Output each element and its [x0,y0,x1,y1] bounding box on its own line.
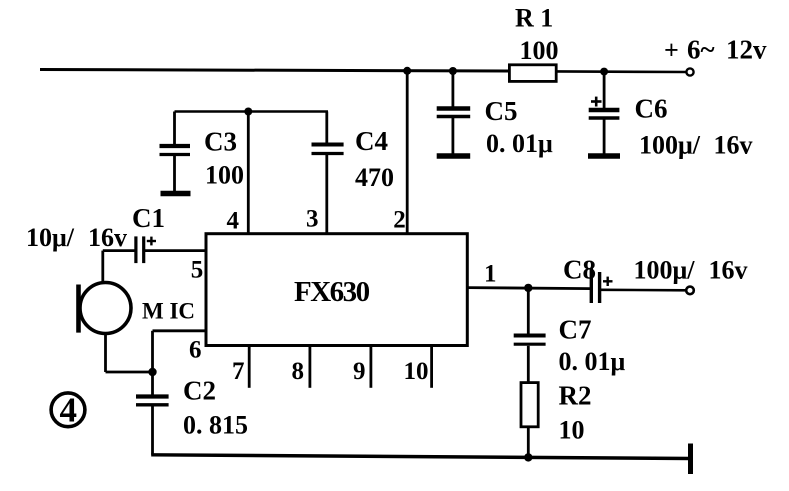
wire IC bottom pin stubs [249,346,431,388]
svg-text:100: 100 [205,160,244,189]
svg-text:+: + [664,36,679,65]
svg-text:16v: 16v [714,131,753,160]
label +6~12v [664,35,767,65]
svg-text:4: 4 [60,391,78,430]
capacitor C5 [437,71,471,154]
svg-text:R2: R2 [559,381,592,411]
svg-text:2: 2 [393,207,406,234]
svg-text:16v: 16v [88,223,127,252]
terminal output [686,287,694,295]
svg-text:C4: C4 [355,126,388,156]
label C1 value 10u/16v [26,223,127,252]
IC U1 FX630 [206,234,467,346]
svg-text:FX630: FX630 [294,276,370,308]
wire MIC bottom to junction [106,334,153,373]
svg-text:C7: C7 [559,314,592,344]
node bottom rail / R2 [524,453,532,461]
label figure number 4 [51,391,85,430]
svg-text:10: 10 [559,416,585,445]
node rail / pin4 [244,108,252,116]
svg-text:C3: C3 [204,127,237,157]
svg-text:R 1: R 1 [515,4,553,33]
microphone MIC [79,283,132,334]
svg-text:6: 6 [189,337,202,364]
svg-text:0. 01μ: 0. 01μ [486,129,553,158]
label C6 value 100u/16v [639,131,753,160]
wire bottom ground rail [151,455,690,459]
svg-text:C2: C2 [183,375,216,405]
svg-text:9: 9 [353,358,366,385]
capacitor C2 [136,372,169,455]
capacitor C1 [136,236,156,263]
label C8 value 100u/16v [634,256,748,285]
wire pin4 vertical [247,112,250,234]
svg-text:0. 815: 0. 815 [183,411,248,440]
wire C1 to MIC vertical [101,251,104,284]
ground C6 bar [588,153,620,158]
svg-text:470: 470 [355,163,394,192]
svg-text:100μ/: 100μ/ [634,256,696,285]
svg-text:C6: C6 [635,93,668,123]
wire pin5 / C1 horizontal [103,249,206,252]
terminal +V supply [686,68,693,75]
resistor R1 [509,65,556,82]
node top rail / C6 [600,68,608,76]
svg-text:C5: C5 [485,96,518,126]
capacitor C6 [589,72,620,154]
wire pin1 output [467,288,687,291]
svg-text:4: 4 [227,207,240,234]
capacitor C8 [591,268,612,303]
svg-text:1: 1 [484,260,497,287]
wire top supply rail [40,70,687,73]
svg-text:0. 01μ: 0. 01μ [559,347,626,376]
svg-text:5: 5 [191,256,204,283]
svg-text:3: 3 [306,206,319,233]
capacitor C3 [160,112,191,192]
svg-text:6~: 6~ [687,35,715,65]
svg-text:10: 10 [404,358,429,385]
svg-text:C1: C1 [132,203,165,233]
resistor R2 [521,383,538,458]
svg-text:12v: 12v [726,35,767,65]
svg-text:10μ/: 10μ/ [26,223,75,252]
wire pin2 vertical [406,71,409,234]
node top rail / pin2 [403,67,411,75]
capacitor C7 [514,288,546,383]
svg-text:100μ/: 100μ/ [639,131,701,160]
svg-text:16v: 16v [709,256,748,285]
svg-text:8: 8 [292,358,305,385]
svg-text:100: 100 [520,36,559,65]
ground C5 bar [437,153,471,158]
node MIC/pin6/C2 [148,368,156,376]
svg-text:C8: C8 [563,254,596,284]
capacitor C4 [312,112,344,234]
node top rail / C5 [449,67,457,75]
wire C3/C4 rail [175,110,329,113]
node pin1/C7 [524,284,532,292]
ground C3 bar [161,191,191,196]
svg-text:M IC: M IC [142,298,195,323]
wire pin6 [153,331,207,372]
svg-text:7: 7 [232,358,245,385]
ground bar right [688,444,693,475]
